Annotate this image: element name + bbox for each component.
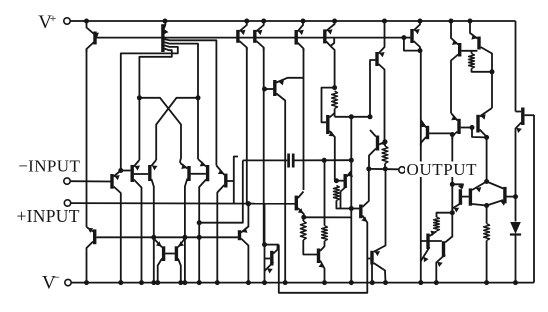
wire V- rail right corner rise (533, 115, 535, 283)
wire lens to R8 (486, 206, 488, 224)
svg-text:−: − (53, 270, 60, 285)
transistor QS (296, 192, 306, 220)
junction dots V- rail (84, 280, 518, 285)
transistor Q1 (84, 19, 99, 53)
+INPUT terminal (64, 200, 70, 206)
wire Q4 collector drop (263, 48, 265, 245)
node cross-couple left (137, 95, 142, 160)
transistor QW (319, 241, 325, 283)
transistor Q5 (296, 19, 305, 52)
-INPUT label (18, 157, 80, 176)
node lens bottom (484, 203, 489, 208)
wire Q3 collector drop (246, 48, 248, 204)
transistor QR2 (176, 239, 185, 283)
transistor Q7 (370, 19, 387, 142)
wire V+ corner drop to QL base (515, 21, 517, 112)
transistor T3 (150, 160, 158, 283)
transistor Q3 (238, 19, 249, 51)
wire bypass rectangle (279, 245, 368, 293)
wire QS emitter line (304, 216, 352, 218)
V+ terminal (64, 18, 84, 24)
resistor R6 (334, 186, 354, 212)
transistor QH (470, 108, 493, 140)
wire QG collector drop (451, 135, 453, 185)
transistor Q6 (325, 19, 337, 88)
svg-text:−INPUT: −INPUT (18, 157, 80, 176)
wire Q2 fan collector 4 (139, 49, 171, 98)
transistor QF (420, 120, 452, 146)
transistor QA (449, 19, 478, 114)
transistor QN (240, 201, 251, 282)
wire QH node drop (486, 137, 488, 181)
wire Q7col to R3 (384, 142, 386, 146)
node Q6 collector (322, 85, 338, 122)
transistor QG (450, 113, 471, 139)
wire T1 emitter link (121, 170, 131, 172)
node QK emitter (513, 194, 518, 221)
wire cap line (243, 158, 354, 163)
transistor T4 (180, 163, 206, 283)
wire QB collector drop (491, 72, 493, 108)
+INPUT label (17, 206, 80, 226)
transistor QV (421, 231, 442, 263)
transistor QM (334, 171, 353, 209)
wire Q5 collector drop (303, 49, 305, 191)
transistor QO (265, 245, 278, 274)
transistor QB (468, 19, 493, 72)
resistor R1 (469, 51, 495, 75)
svg-text:+: + (50, 11, 57, 25)
wire cap line drop (197, 160, 243, 225)
wire QV resistor loop (437, 213, 453, 217)
resistor R3 (382, 146, 388, 169)
transistor QL (516, 108, 535, 197)
OUTPUT terminal (399, 167, 405, 173)
transistor QD (328, 113, 335, 181)
wire cross line B (156, 98, 198, 160)
transistor QU (372, 169, 386, 283)
resistor R5 (322, 226, 328, 242)
wire Q8 node drop (420, 51, 422, 283)
transistor QI (450, 182, 463, 215)
transistor QP (87, 227, 95, 283)
wire Q1 collector drop (86, 49, 88, 227)
transistor Q2 (163, 19, 169, 53)
transistor T2 (132, 160, 148, 283)
transistor Q8 (401, 19, 422, 54)
V- terminal (65, 279, 87, 285)
wire T6 base hook (234, 157, 238, 204)
transistor QR1 (154, 239, 175, 283)
node QO top (262, 204, 279, 283)
transistor QV2 (436, 237, 452, 283)
wire output node (366, 166, 398, 171)
wire Q2 fan collector 2 (165, 42, 199, 98)
wire comp node drop (350, 117, 352, 209)
wire base bus (97, 37, 404, 39)
OUTPUT label (405, 160, 480, 179)
transistor Q4 (255, 19, 266, 51)
capacitor C1 (289, 154, 294, 168)
resistor R2 (332, 91, 338, 117)
wire comp node to rail (350, 209, 352, 283)
wire cross line A (139, 98, 181, 163)
transistor QT (353, 169, 369, 259)
-INPUT terminal (64, 178, 70, 184)
resistor R4 (300, 217, 317, 254)
transistor T1 (112, 168, 123, 283)
V+ rail (84, 20, 516, 22)
wire Q2 fan collector 1 (165, 39, 217, 165)
node lens top (484, 179, 489, 184)
transistor QK (487, 182, 516, 206)
wire -input to T1 base (70, 180, 110, 182)
resistor R7 (434, 217, 440, 231)
diode D1 (510, 222, 521, 283)
wire mirror bus (97, 235, 238, 240)
wire QI node drop (451, 184, 453, 237)
wire QU base jog (367, 258, 370, 260)
wire +input line (71, 202, 295, 205)
V+ label (38, 11, 56, 33)
V- label (42, 270, 60, 294)
transistor T6 (216, 166, 233, 283)
resistor R8 (484, 224, 490, 283)
svg-text:+INPUT: +INPUT (17, 206, 80, 226)
node cross-couple right (196, 95, 201, 159)
wire QD collector node (335, 114, 373, 119)
wire QI QJ base link (462, 196, 469, 198)
junction dot +input (246, 201, 251, 206)
transistor QJ (470, 182, 486, 206)
transistor QE (369, 130, 388, 169)
svg-text:OUTPUT: OUTPUT (407, 160, 478, 179)
transistor QC (262, 78, 304, 283)
V- rail (87, 282, 535, 284)
wire R5 line (324, 160, 326, 225)
wire Q2 fan collector 3 (121, 45, 178, 170)
transistor T5 (198, 159, 208, 283)
